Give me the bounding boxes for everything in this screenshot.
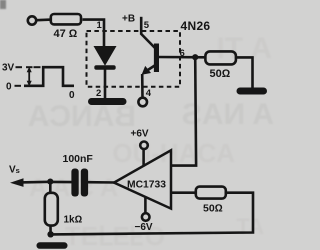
Vs output arrow [9,165,50,187]
pin 1 label [97,20,103,31]
svg-text:0: 0 [69,90,75,101]
ground (R2) [237,88,268,95]
svg-text:0: 0 [6,81,12,92]
svg-text:50Ω: 50Ω [203,203,223,215]
wire R4 around to node C (bottom rail) [50,193,253,235]
+6V terminal [131,129,149,166]
+B supply label [122,14,135,25]
ground (pin 2) [88,98,127,105]
4N26 label [181,19,211,33]
svg-text:1: 1 [97,20,103,31]
ground (R3) [37,242,68,249]
input terminal [28,16,36,24]
svg-text:Vs: Vs [9,165,20,176]
svg-text:100nF: 100nF [63,153,94,165]
svg-text:+6V: +6V [131,129,149,140]
pin 4 terminal [138,98,147,107]
op-amp U2 MC1733 [114,150,171,208]
-6V terminal [135,197,153,233]
LED diode (inside 4N26) [95,47,115,69]
svg-text:A TI: A TI [216,32,272,65]
node B junction [47,179,53,185]
svg-text:+B: +B [122,14,135,25]
resistor R2 50ohm [205,51,236,80]
pin 5 label [144,20,150,31]
pin 6 label [180,48,185,59]
wire emitter to pin4 [141,74,144,98]
svg-text:−6V: −6V [135,222,153,233]
svg-text:5: 5 [144,20,150,31]
svg-text:50Ω: 50Ω [210,68,231,80]
wire node B to C1 [50,181,71,184]
node A junction [192,54,198,60]
wire node A down to amp input [171,57,196,165]
wire amp lower input to R4 [171,191,197,194]
resistor R4 50ohm feedback [196,187,226,215]
input pulse annotation 3V [2,63,75,102]
pin 2 label [96,88,101,99]
optocoupler U1 dashed box 4N26 [87,31,181,87]
wire C1 to amp apex [88,181,116,184]
svg-text:6: 6 [180,48,185,59]
svg-text:AT: AT [236,214,264,239]
pin 4 label [146,88,152,99]
resistor R3 1k [45,193,83,226]
phototransistor Q1 (inside 4N26) [141,34,159,75]
wire R1 to pin1 [83,20,105,46]
svg-text:1kΩ: 1kΩ [64,215,83,226]
wire R2 to ground [236,57,253,88]
svg-text:4: 4 [146,88,152,99]
svg-text:4N26: 4N26 [181,19,211,33]
svg-text:AƆAH-UO: AƆAH-UO [112,138,235,168]
svg-text:3V: 3V [2,63,15,74]
wire input to R1 [36,18,51,21]
svg-text:MC1733: MC1733 [127,179,166,190]
wire R3 to node C [49,225,52,235]
node C junction [47,231,53,237]
wire node B to R3 [49,182,52,193]
svg-text:47 Ω: 47 Ω [54,28,78,40]
capacitor C1 100nF [63,153,94,197]
wire LED cathode to pin2 and ground [104,69,107,99]
wire collector to pin5 / +B [140,17,143,35]
wire base pin6 to node A [157,56,206,59]
resistor R1 47ohm [51,14,81,40]
svg-text:2: 2 [96,88,101,99]
